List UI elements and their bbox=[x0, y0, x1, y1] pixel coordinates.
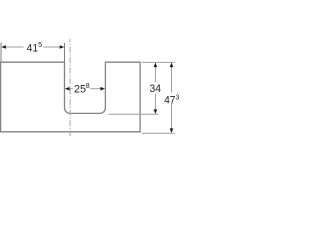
svg-text:8: 8 bbox=[86, 81, 90, 90]
dimension 41.5 right arrow bbox=[60, 45, 65, 49]
dimension 47.3 top arrow bbox=[170, 63, 174, 68]
dimension 25.8 left arrow bbox=[65, 87, 70, 91]
svg-text:41: 41 bbox=[27, 42, 38, 54]
svg-text:47: 47 bbox=[164, 95, 175, 107]
dimension 47.3 line bbox=[171, 67, 173, 93]
extension line cutout bottom bbox=[108, 113, 158, 115]
countertop outline with U-shaped cutout bbox=[1, 62, 141, 132]
dimension 25.8 line bbox=[69, 88, 73, 90]
dimension 34 line bbox=[154, 67, 156, 83]
extension line left edge bbox=[0, 43, 2, 62]
svg-text:25: 25 bbox=[74, 84, 86, 96]
dimension 47.3 bottom arrow bbox=[170, 128, 174, 133]
extension line top right bbox=[142, 61, 175, 63]
dimension 34 top arrow bbox=[154, 63, 158, 68]
svg-text:3: 3 bbox=[176, 93, 180, 102]
dimension 41.5 line bbox=[5, 46, 24, 48]
dimension 25.8 right arrow bbox=[100, 87, 105, 91]
dimension 34 bottom arrow bbox=[154, 109, 158, 114]
extension line bottom right bbox=[142, 132, 175, 134]
svg-text:34: 34 bbox=[150, 83, 162, 95]
extension line cutout left edge bbox=[64, 43, 66, 62]
centerline (dash-dot) bbox=[69, 39, 71, 136]
svg-text:5: 5 bbox=[38, 40, 42, 49]
dimension 41.5 left arrow bbox=[1, 45, 6, 49]
